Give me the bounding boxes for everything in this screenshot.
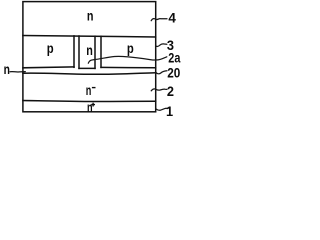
svg-text:n: n <box>86 42 93 58</box>
svg-text:n: n <box>4 61 10 77</box>
svg-text:20: 20 <box>167 65 180 81</box>
svg-text:4: 4 <box>168 9 176 25</box>
svg-text:p: p <box>127 40 134 56</box>
svg-text:n: n <box>87 7 94 23</box>
svg-text:2: 2 <box>167 83 174 99</box>
svg-text:2a: 2a <box>168 50 180 66</box>
svg-text:n: n <box>87 99 93 115</box>
svg-text:p: p <box>47 40 54 56</box>
svg-text:1: 1 <box>166 103 173 119</box>
svg-text:n: n <box>86 82 92 98</box>
